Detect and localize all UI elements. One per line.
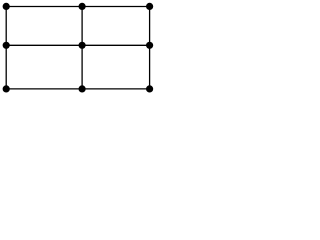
- wire: left vertical net: [5, 7, 7, 89]
- node G (bottom-left junction): [3, 85, 10, 92]
- wire: middle horizontal net: [6, 44, 149, 46]
- node I (bottom-right junction): [146, 85, 153, 92]
- wire: bottom horizontal net: [6, 88, 149, 90]
- wire: top horizontal net: [6, 6, 149, 8]
- node B (top-center junction): [79, 3, 86, 10]
- wire: center vertical net: [81, 7, 83, 89]
- node F (middle-right junction): [146, 42, 153, 49]
- wire: right vertical net: [149, 7, 151, 89]
- node C (top-right junction): [146, 3, 153, 10]
- node A (top-left junction): [3, 3, 10, 10]
- node H (bottom-center junction): [79, 85, 86, 92]
- node D (middle-left junction): [3, 42, 10, 49]
- node E (middle-center junction): [79, 42, 86, 49]
